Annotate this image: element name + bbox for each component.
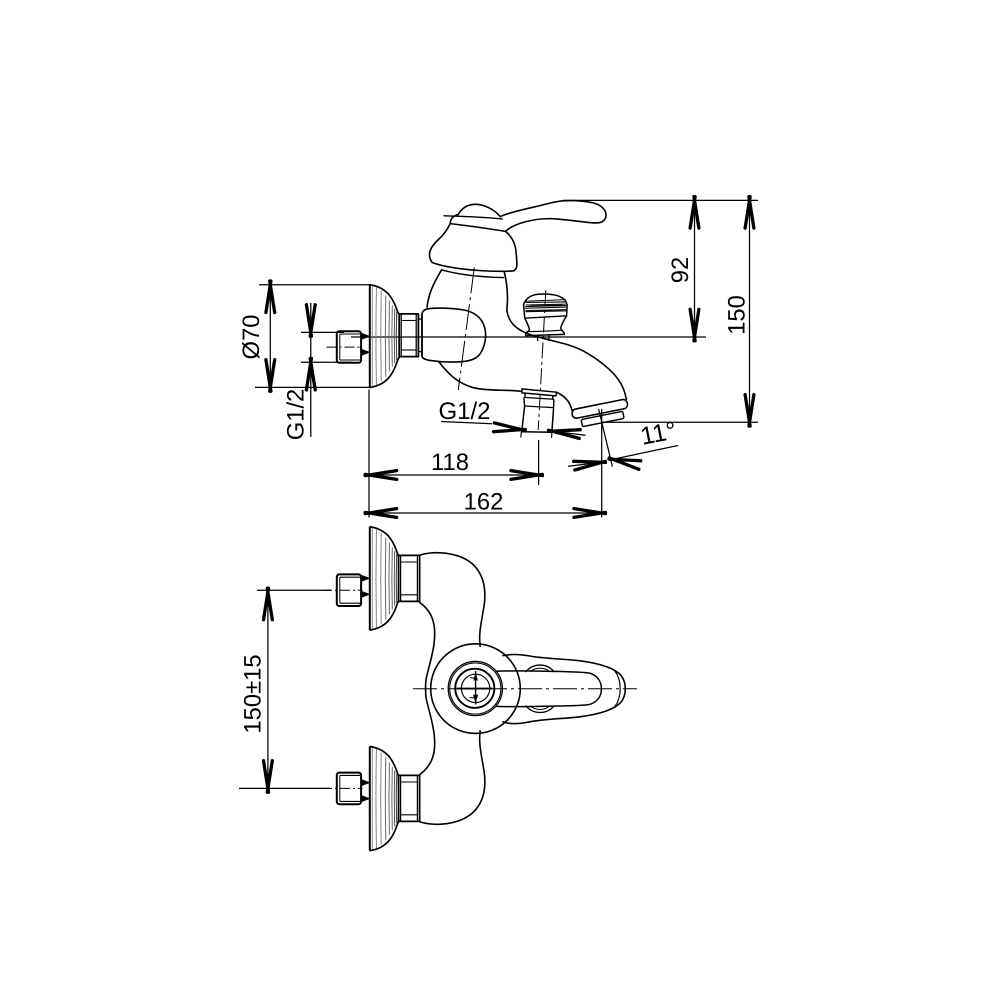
spout lower profile xyxy=(439,362,522,392)
supply pipe block (side view) xyxy=(337,331,361,363)
lever handle xyxy=(500,201,606,232)
lever envelope (front view) xyxy=(503,655,625,724)
cartridge circle xyxy=(461,674,489,702)
dimension diameter 70 xyxy=(238,281,370,391)
connection nut (side view) xyxy=(399,314,418,357)
svg-text:162: 162 xyxy=(464,489,504,516)
svg-text:150±15: 150±15 xyxy=(240,654,267,733)
body outline (front view) xyxy=(420,553,485,825)
dimension 118 xyxy=(365,449,542,479)
cap collar xyxy=(444,215,506,232)
svg-text:150: 150 xyxy=(724,295,751,335)
wall extension line xyxy=(368,390,370,518)
dimension 150 xyxy=(724,197,754,427)
aerator xyxy=(581,411,624,426)
neck ring (side view) xyxy=(418,319,422,352)
hub ring outer xyxy=(448,661,502,715)
spout end collar xyxy=(571,399,628,419)
shower hose port xyxy=(521,389,557,438)
svg-text:92: 92 xyxy=(667,257,694,283)
top pipe centerline (front view) xyxy=(322,589,363,591)
dimension 11 degrees xyxy=(568,409,679,470)
valve body xyxy=(422,308,486,362)
bottom thread wedge lower (front view) xyxy=(362,796,370,802)
bottom supply pipe (front view) xyxy=(337,773,361,805)
dimension 162 xyxy=(365,489,605,518)
spout upper profile xyxy=(507,310,627,399)
extension line top xyxy=(563,199,758,201)
bottom thread wedge upper (front view) xyxy=(362,780,370,786)
lever capsule (front view) xyxy=(496,671,601,707)
top thread wedge upper (front view) xyxy=(362,575,370,581)
top supply pipe (front view) xyxy=(337,574,361,606)
thread wedge upper (side view) xyxy=(362,333,370,339)
top thread wedge lower (front view) xyxy=(362,591,370,597)
spout underside xyxy=(556,392,572,412)
body column xyxy=(427,270,507,310)
hub ring inner xyxy=(450,663,501,714)
hub outer circle xyxy=(431,644,521,734)
cartridge retaining ring xyxy=(455,669,494,708)
diverter axis centerline xyxy=(538,291,546,431)
label G1/2 shower port xyxy=(438,398,585,438)
dimension G1/2 wall xyxy=(283,303,353,440)
pipe centerline (side view) xyxy=(327,346,363,348)
cartridge cross xyxy=(457,671,493,705)
axis line (side view) xyxy=(351,336,706,338)
wall escutcheon flange (side view) xyxy=(370,285,399,388)
hub centerline xyxy=(413,688,637,690)
bottom escutcheon (front view) xyxy=(370,747,399,851)
bell housing xyxy=(429,224,516,272)
svg-text:G1/2: G1/2 xyxy=(438,398,490,425)
top connection nut (front view) xyxy=(399,555,420,601)
bottom connection nut (front view) xyxy=(399,775,420,821)
cartridge axis centerline xyxy=(458,268,474,391)
bottom pipe centerline (front view) xyxy=(322,787,363,789)
svg-text:Ø70: Ø70 xyxy=(238,315,265,360)
shower port extension line xyxy=(538,440,540,485)
svg-text:G1/2: G1/2 xyxy=(283,389,310,441)
dimension 150 plus-minus 15 xyxy=(239,588,331,792)
diverter knob xyxy=(524,294,568,341)
dimension 92 xyxy=(667,197,699,341)
top escutcheon (front view) xyxy=(370,527,399,630)
spout tip extension line xyxy=(601,409,603,518)
skirt bottom rim xyxy=(442,270,504,278)
cartridge cap dome xyxy=(458,204,500,216)
thread wedge lower (side view) xyxy=(362,349,370,355)
svg-text:118: 118 xyxy=(431,449,469,476)
lever pivot boss arcs xyxy=(526,665,554,712)
extension line spout level xyxy=(602,421,758,423)
